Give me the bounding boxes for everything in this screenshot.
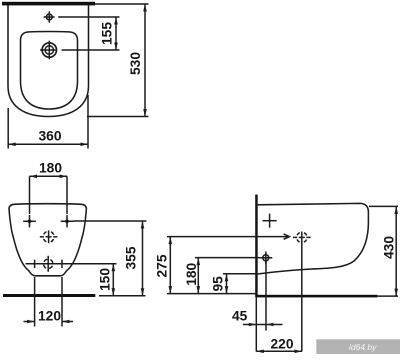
watermark strip (316, 339, 400, 354)
dimension 180 front ext lines (29, 176, 31, 214)
dimension 530 extension lines (95, 3, 149, 5)
dimension 275 line (169, 237, 171, 294)
dimension 180 side line (197, 258, 199, 294)
svg-text:355: 355 (124, 246, 139, 269)
front fixing hole right (66, 215, 68, 228)
dimension 355 ext line (73, 220, 147, 222)
svg-text:530: 530 (128, 52, 143, 75)
dimension 430 top ext (369, 205, 398, 207)
dimension 155 line (115, 17, 117, 50)
dimension 180 side ext (195, 257, 260, 259)
leader to drain (275 level) (167, 236, 289, 238)
dimension 430 line (395, 206, 397, 296)
svg-text:150: 150 (98, 268, 113, 291)
side view profile (258, 203, 369, 274)
svg-text:180: 180 (39, 161, 62, 176)
svg-text:220: 220 (271, 337, 294, 352)
svg-text:45: 45 (232, 309, 248, 324)
dimension 530 line (144, 4, 146, 117)
front drain side hole right (61, 260, 63, 268)
svg-text:275: 275 (155, 254, 170, 277)
front view outline (9, 204, 86, 276)
svg-text:360: 360 (39, 129, 62, 144)
side drain hidden cross (301, 232, 303, 352)
dimension 45 wall ext line (255, 298, 257, 352)
svg-text:430: 430 (381, 236, 396, 259)
side water inlet (263, 255, 269, 261)
side fixing hole (269, 214, 271, 228)
top view drain (42, 43, 56, 57)
svg-text:95: 95 (211, 276, 226, 292)
front drain side hole left (34, 260, 36, 268)
svg-text:120: 120 (38, 309, 61, 324)
side bottom shared ext line (167, 293, 256, 295)
top view tap hole (46, 14, 52, 20)
dimension 360 extension lines (7, 108, 9, 149)
top view outer outline (8, 5, 89, 117)
svg-text:180: 180 (184, 262, 199, 285)
svg-text:155: 155 (100, 22, 115, 45)
side view wall line (255, 195, 258, 298)
dimension 95 ext (223, 273, 256, 275)
dimension 95 line (226, 274, 228, 294)
dimension 120 ext lines (34, 277, 36, 327)
dimension 220 line (256, 350, 302, 352)
top view wall bar (2, 2, 95, 6)
side view bottom thick bar (255, 295, 377, 298)
dimension 150 line (112, 264, 114, 296)
dimension 120 line (24, 321, 35, 323)
top view inner bowl (21, 32, 78, 109)
front floor bar (3, 294, 95, 297)
dimension 45 line with outside arrows (243, 324, 266, 326)
leader tap hole to 155 dim (44, 16, 55, 18)
leader drain to 155 dim (40, 49, 56, 51)
dimension 360 line (8, 143, 88, 145)
front floor thin extension (99, 295, 146, 297)
front fixing hole left (29, 215, 31, 228)
front drain centerline (26, 263, 117, 265)
dimension 45 inlet ext line (265, 261, 267, 331)
dimension 180 front line (30, 175, 68, 177)
front drain (44, 259, 53, 268)
front tap hole dashed (43, 231, 54, 242)
side view bottom thin ext (377, 295, 398, 297)
svg-text:id64.by: id64.by (349, 342, 377, 352)
dimension 355 line (142, 221, 144, 296)
